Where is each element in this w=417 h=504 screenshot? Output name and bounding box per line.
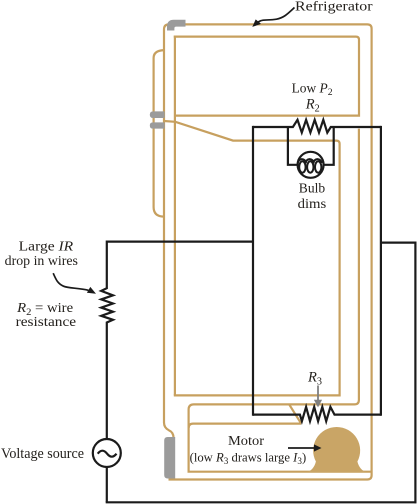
svg-text:R3: R3	[307, 370, 322, 388]
svg-text:Low P2: Low P2	[292, 80, 333, 98]
svg-text:Large IR: Large IR	[19, 239, 74, 254]
svg-text:resistance: resistance	[16, 314, 77, 329]
svg-text:Motor: Motor	[228, 433, 265, 448]
svg-text:drop in wires: drop in wires	[5, 253, 78, 268]
svg-text:Refrigerator: Refrigerator	[295, 0, 373, 14]
svg-text:(low R3 draws large I3): (low R3 draws large I3)	[190, 450, 307, 467]
svg-text:Bulb: Bulb	[299, 181, 326, 196]
svg-text:dims: dims	[298, 196, 327, 211]
svg-text:Voltage source: Voltage source	[1, 445, 84, 462]
svg-text:R2: R2	[305, 97, 320, 115]
